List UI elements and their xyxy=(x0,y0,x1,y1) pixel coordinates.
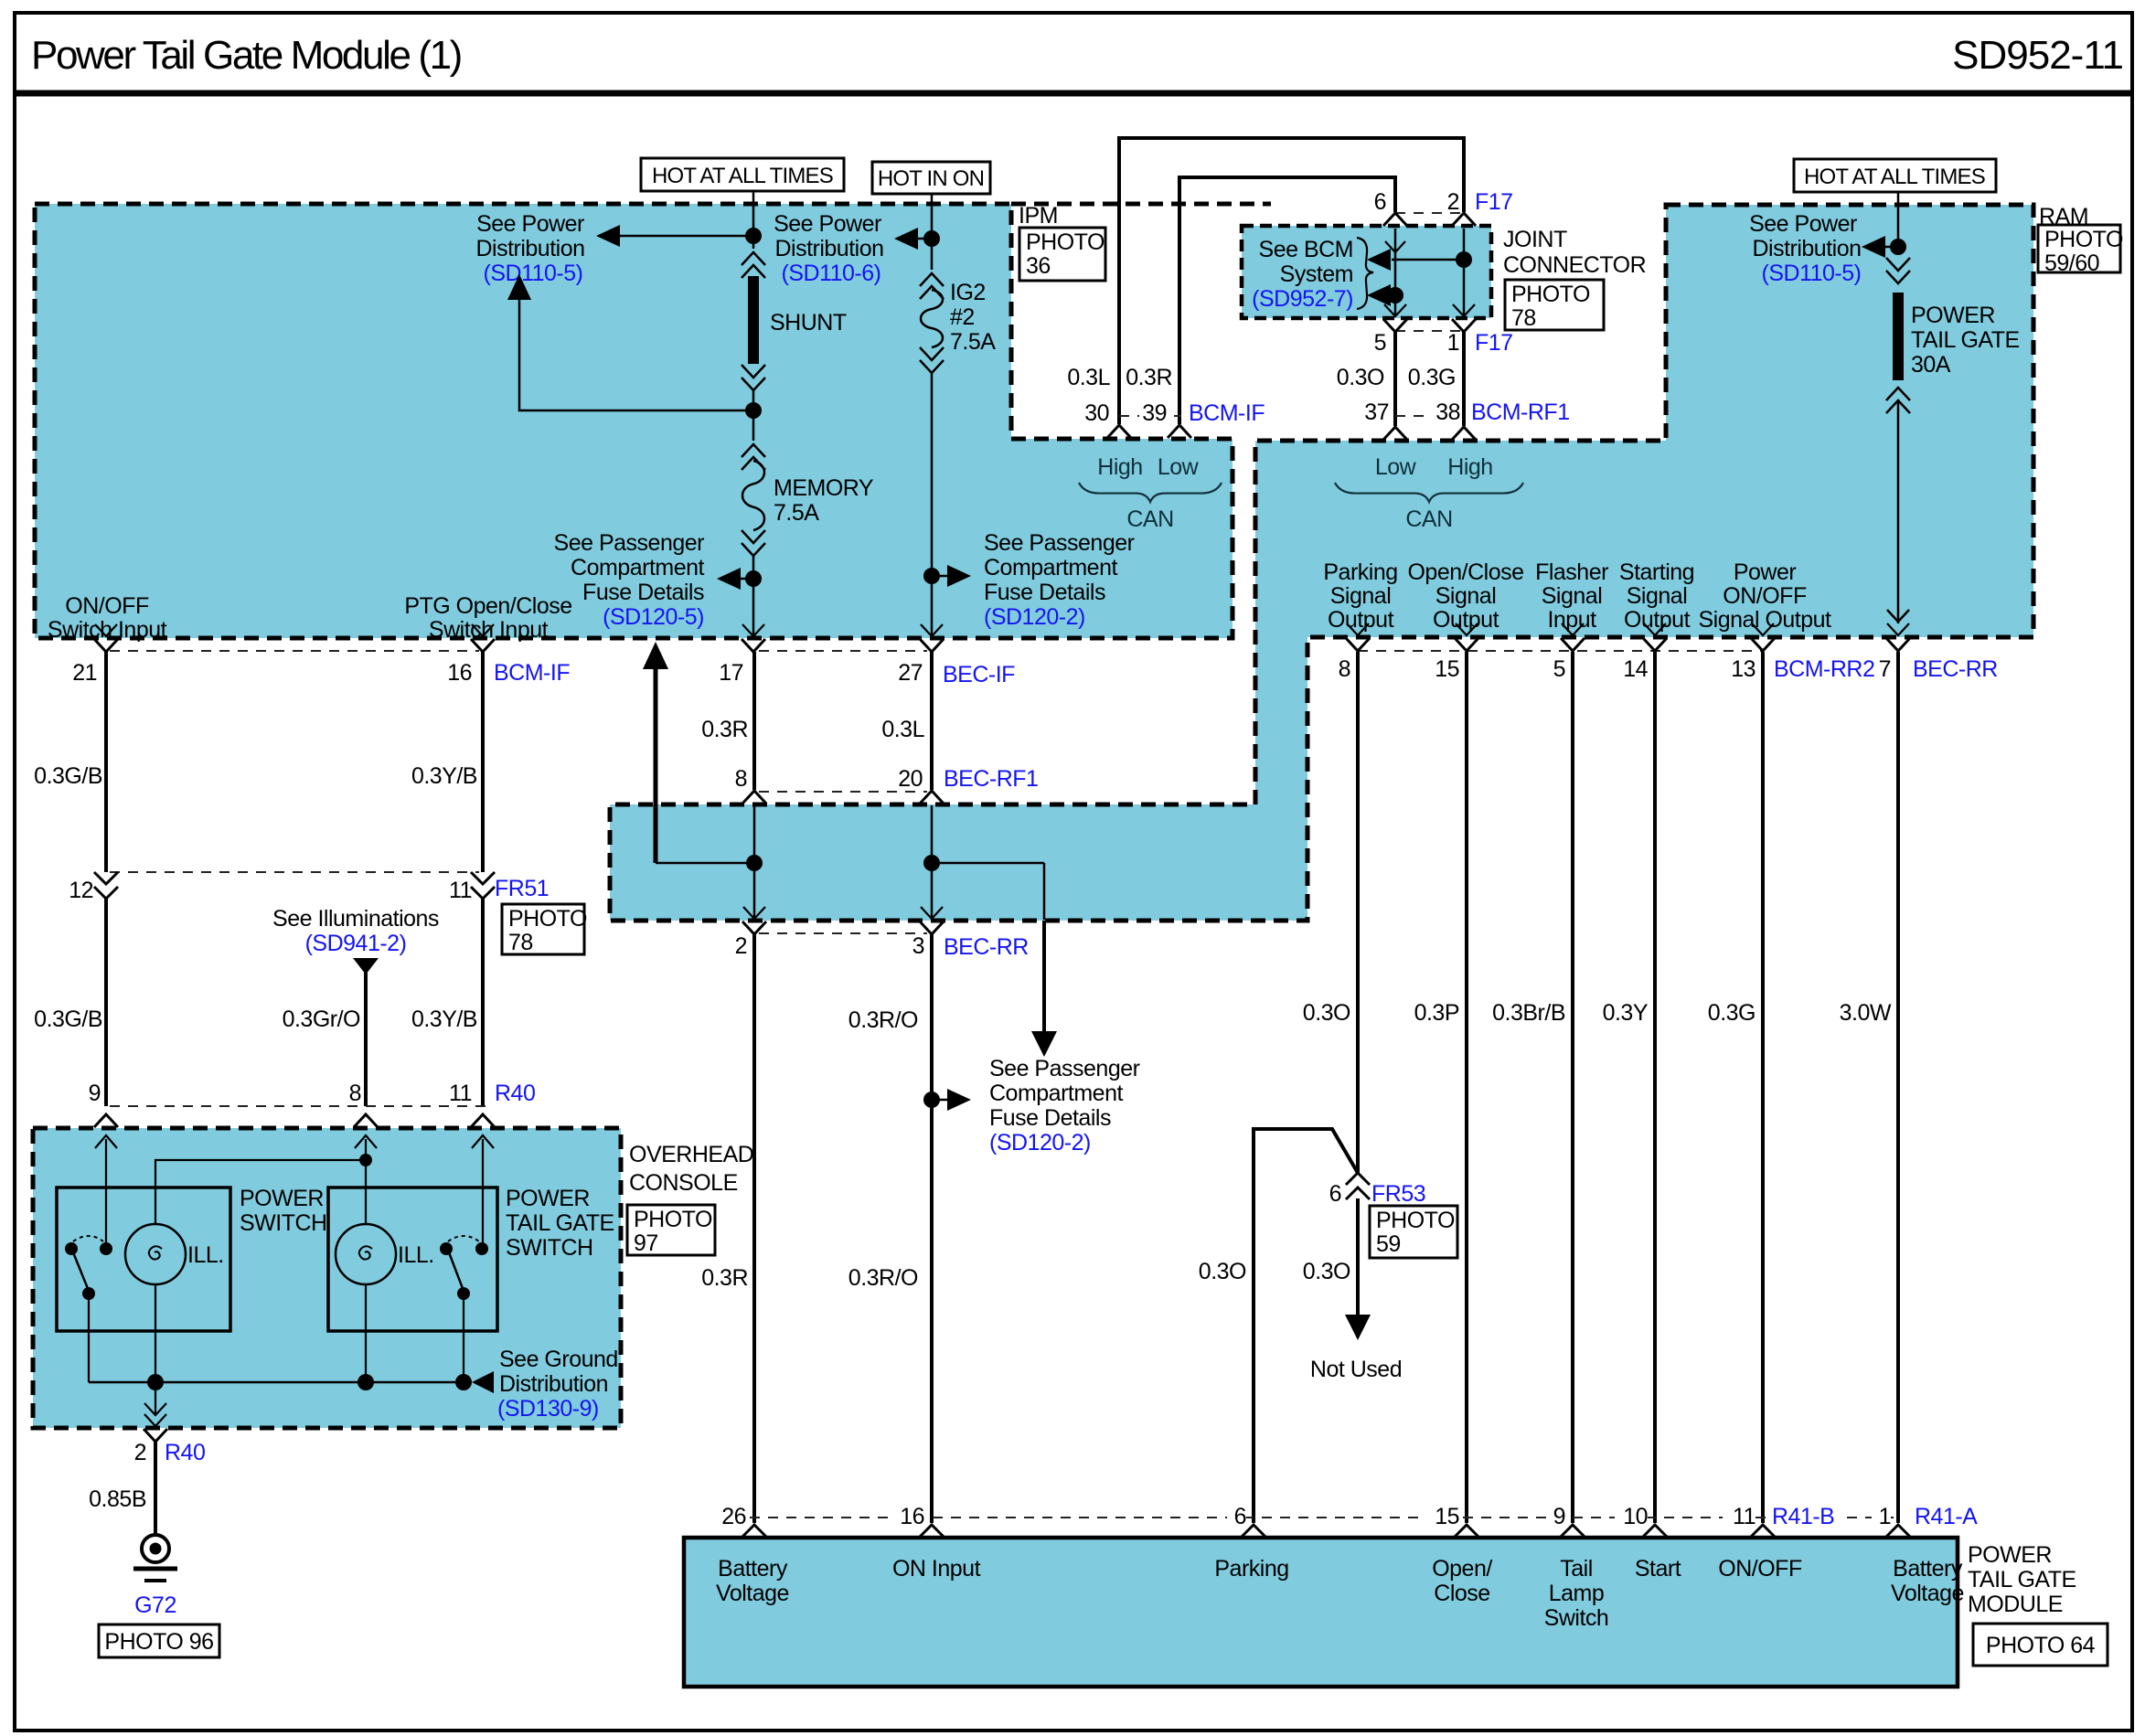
svg-text:Lamp: Lamp xyxy=(1549,1581,1605,1606)
svg-text:Signal Output: Signal Output xyxy=(1699,607,1832,633)
svg-text:Compartment: Compartment xyxy=(571,555,704,580)
svg-text:Flasher: Flasher xyxy=(1535,559,1608,585)
svg-text:CONSOLE: CONSOLE xyxy=(629,1170,738,1196)
svg-text:TAIL GATE: TAIL GATE xyxy=(506,1210,614,1236)
svg-text:PHOTO: PHOTO xyxy=(1026,229,1105,255)
svg-text:15: 15 xyxy=(1435,1504,1459,1529)
svg-text:BCM-IF: BCM-IF xyxy=(1189,400,1265,426)
svg-text:See BCM: See BCM xyxy=(1259,237,1353,262)
svg-text:Signal: Signal xyxy=(1542,583,1603,609)
svg-text:0.3G/B: 0.3G/B xyxy=(34,1006,102,1032)
svg-text:MEMORY: MEMORY xyxy=(774,475,874,501)
svg-text:0.85B: 0.85B xyxy=(89,1486,146,1512)
svg-text:High: High xyxy=(1447,454,1492,480)
svg-text:Battery: Battery xyxy=(1893,1556,1963,1582)
svg-text:POWER: POWER xyxy=(1911,303,1995,328)
svg-text:7.5A: 7.5A xyxy=(774,500,819,526)
svg-text:2: 2 xyxy=(134,1440,146,1465)
svg-text:36: 36 xyxy=(1026,253,1051,279)
svg-text:PHOTO: PHOTO xyxy=(1376,1208,1455,1233)
svg-text:Starting: Starting xyxy=(1619,559,1694,585)
svg-text:FR53: FR53 xyxy=(1371,1181,1425,1207)
svg-text:Not Used: Not Used xyxy=(1310,1357,1402,1382)
svg-text:SD952-11: SD952-11 xyxy=(1952,33,2123,78)
svg-text:3: 3 xyxy=(912,933,924,959)
svg-text:0.3Gr/O: 0.3Gr/O xyxy=(283,1006,360,1032)
svg-text:Compartment: Compartment xyxy=(989,1081,1123,1106)
svg-text:8: 8 xyxy=(349,1081,361,1106)
svg-text:Voltage: Voltage xyxy=(1891,1581,1964,1606)
svg-text:#2: #2 xyxy=(950,304,975,330)
svg-text:0.3R: 0.3R xyxy=(701,1265,748,1291)
svg-text:Distribution: Distribution xyxy=(499,1371,608,1397)
svg-text:2: 2 xyxy=(1447,189,1459,215)
svg-text:38: 38 xyxy=(1435,399,1460,425)
svg-text:R41-B: R41-B xyxy=(1772,1504,1834,1529)
svg-text:0.3O: 0.3O xyxy=(1199,1259,1246,1284)
svg-text:0.3G/B: 0.3G/B xyxy=(34,763,102,789)
svg-text:BEC-IF: BEC-IF xyxy=(943,662,1015,687)
svg-text:HOT IN ON: HOT IN ON xyxy=(878,166,984,191)
svg-text:14: 14 xyxy=(1623,656,1648,682)
svg-text:See Passenger: See Passenger xyxy=(554,530,705,556)
svg-text:21: 21 xyxy=(72,660,97,686)
svg-text:PHOTO 64: PHOTO 64 xyxy=(1986,1633,2096,1658)
svg-text:JOINT: JOINT xyxy=(1503,227,1567,252)
svg-text:0.3G: 0.3G xyxy=(1408,365,1456,390)
svg-text:Parking: Parking xyxy=(1214,1556,1288,1582)
svg-text:System: System xyxy=(1280,261,1353,287)
svg-text:Compartment: Compartment xyxy=(984,555,1117,580)
svg-text:0.3R: 0.3R xyxy=(701,717,748,742)
svg-text:9: 9 xyxy=(1553,1504,1565,1529)
svg-text:10: 10 xyxy=(1623,1504,1648,1529)
svg-text:RAM: RAM xyxy=(2039,204,2088,229)
svg-text:0.3O: 0.3O xyxy=(1337,365,1384,390)
svg-text:Distribution: Distribution xyxy=(774,236,883,261)
svg-text:R40: R40 xyxy=(165,1440,205,1465)
svg-text:2: 2 xyxy=(735,933,747,959)
svg-text:BCM-IF: BCM-IF xyxy=(494,660,570,686)
svg-text:8: 8 xyxy=(735,766,747,792)
svg-text:Output: Output xyxy=(1624,607,1691,633)
svg-text:11: 11 xyxy=(1733,1504,1755,1529)
svg-text:ON/OFF: ON/OFF xyxy=(1723,583,1807,609)
svg-text:ON Input: ON Input xyxy=(892,1556,981,1582)
svg-text:SWITCH: SWITCH xyxy=(240,1210,327,1236)
svg-text:ILL.: ILL. xyxy=(398,1242,434,1268)
svg-text:0.3Y/B: 0.3Y/B xyxy=(411,763,477,789)
svg-text:Start: Start xyxy=(1635,1556,1681,1582)
svg-text:PHOTO: PHOTO xyxy=(508,906,587,932)
svg-text:Switch Input: Switch Input xyxy=(48,617,167,643)
svg-text:PHOTO 96: PHOTO 96 xyxy=(104,1629,213,1655)
svg-text:27: 27 xyxy=(898,660,923,686)
svg-text:HOT AT ALL TIMES: HOT AT ALL TIMES xyxy=(652,164,833,188)
svg-text:0.3Y/B: 0.3Y/B xyxy=(411,1006,477,1032)
svg-text:BCM-RR2: BCM-RR2 xyxy=(1774,656,1874,682)
svg-text:SHUNT: SHUNT xyxy=(770,310,847,335)
svg-text:1: 1 xyxy=(1447,330,1459,356)
svg-text:0.3R/O: 0.3R/O xyxy=(848,1265,918,1291)
svg-text:ON/OFF: ON/OFF xyxy=(1718,1556,1802,1582)
svg-text:6: 6 xyxy=(1374,189,1386,215)
svg-text:Fuse Details: Fuse Details xyxy=(989,1105,1111,1131)
svg-text:FR51: FR51 xyxy=(495,876,549,901)
svg-text:BEC-RF1: BEC-RF1 xyxy=(944,766,1038,792)
svg-text:Voltage: Voltage xyxy=(716,1581,789,1606)
svg-text:Close: Close xyxy=(1434,1581,1489,1606)
svg-text:(SD941-2): (SD941-2) xyxy=(305,931,407,956)
svg-text:Output: Output xyxy=(1433,607,1499,633)
svg-text:Power Tail Gate Module (1): Power Tail Gate Module (1) xyxy=(31,33,461,78)
svg-text:See Power: See Power xyxy=(774,211,881,237)
svg-text:Tail: Tail xyxy=(1560,1556,1593,1582)
svg-text:IG2: IG2 xyxy=(950,280,986,305)
svg-text:Battery: Battery xyxy=(718,1556,788,1582)
svg-text:High: High xyxy=(1097,454,1142,480)
svg-text:Fuse Details: Fuse Details xyxy=(984,580,1105,605)
svg-text:Signal: Signal xyxy=(1435,583,1497,609)
svg-text:CAN: CAN xyxy=(1126,506,1173,532)
svg-text:12: 12 xyxy=(69,878,93,903)
svg-text:Fuse Details: Fuse Details xyxy=(582,580,704,605)
svg-text:30: 30 xyxy=(1084,400,1109,426)
svg-text:17: 17 xyxy=(719,660,743,686)
svg-text:G72: G72 xyxy=(134,1592,176,1618)
svg-text:BCM-RF1: BCM-RF1 xyxy=(1471,399,1570,425)
svg-text:Input: Input xyxy=(1547,607,1596,633)
svg-text:Output: Output xyxy=(1328,607,1394,633)
svg-text:0.3G: 0.3G xyxy=(1708,1000,1755,1026)
svg-text:R40: R40 xyxy=(495,1081,535,1106)
svg-text:(SD110-6): (SD110-6) xyxy=(782,261,881,286)
svg-text:9: 9 xyxy=(89,1081,101,1106)
svg-text:CAN: CAN xyxy=(1405,506,1452,532)
svg-text:0.3R: 0.3R xyxy=(1126,365,1172,390)
svg-text:Signal: Signal xyxy=(1330,583,1392,609)
svg-text:59: 59 xyxy=(1376,1231,1401,1257)
svg-text:6: 6 xyxy=(1329,1181,1341,1207)
svg-text:OVERHEAD: OVERHEAD xyxy=(629,1142,753,1167)
svg-text:5: 5 xyxy=(1553,656,1565,682)
svg-text:POWER: POWER xyxy=(1968,1542,2052,1568)
svg-text:3.0W: 3.0W xyxy=(1840,1000,1892,1026)
svg-text:(SD110-5): (SD110-5) xyxy=(1762,261,1862,286)
svg-text:See Power: See Power xyxy=(1749,211,1857,237)
svg-text:0.3O: 0.3O xyxy=(1303,1259,1350,1284)
svg-text:7: 7 xyxy=(1879,656,1891,682)
svg-text:16: 16 xyxy=(447,660,472,686)
svg-text:SWITCH: SWITCH xyxy=(506,1235,593,1261)
svg-text:(SD120-2): (SD120-2) xyxy=(989,1130,1091,1156)
svg-text:PHOTO: PHOTO xyxy=(2044,227,2123,252)
svg-text:7.5A: 7.5A xyxy=(950,329,996,355)
svg-text:See Passenger: See Passenger xyxy=(984,530,1135,556)
svg-text:Power: Power xyxy=(1734,559,1797,585)
svg-text:PHOTO: PHOTO xyxy=(634,1207,712,1232)
svg-text:See Passenger: See Passenger xyxy=(989,1056,1140,1081)
svg-text:ON/OFF: ON/OFF xyxy=(65,593,149,619)
svg-text:8: 8 xyxy=(1339,656,1350,682)
svg-text:78: 78 xyxy=(1511,305,1536,331)
svg-text:ILL.: ILL. xyxy=(187,1242,224,1268)
svg-text:TAIL GATE: TAIL GATE xyxy=(1911,327,2020,353)
svg-text:0.3Y: 0.3Y xyxy=(1603,1000,1649,1026)
svg-text:0.3L: 0.3L xyxy=(1067,365,1110,390)
svg-text:0.3L: 0.3L xyxy=(881,717,924,742)
svg-text:97: 97 xyxy=(634,1230,658,1256)
svg-text:13: 13 xyxy=(1731,656,1755,682)
svg-text:F17: F17 xyxy=(1475,330,1513,356)
svg-text:BEC-RR: BEC-RR xyxy=(944,934,1029,960)
svg-text:Low: Low xyxy=(1158,454,1200,480)
svg-text:Switch: Switch xyxy=(1544,1605,1609,1631)
svg-text:BEC-RR: BEC-RR xyxy=(1913,656,1998,682)
svg-text:37: 37 xyxy=(1364,399,1389,425)
svg-text:(SD120-5): (SD120-5) xyxy=(603,604,704,630)
svg-text:0.3P: 0.3P xyxy=(1414,1000,1459,1026)
svg-text:Open/: Open/ xyxy=(1432,1556,1492,1582)
svg-text:F17: F17 xyxy=(1475,189,1513,215)
svg-text:Distribution: Distribution xyxy=(475,236,584,261)
svg-text:6: 6 xyxy=(1234,1504,1246,1529)
svg-text:MODULE: MODULE xyxy=(1968,1592,2063,1617)
svg-text:PTG Open/Close: PTG Open/Close xyxy=(404,593,571,619)
svg-text:POWER: POWER xyxy=(240,1186,324,1211)
svg-text:(SD130-9): (SD130-9) xyxy=(497,1396,599,1422)
svg-text:Low: Low xyxy=(1375,454,1417,480)
svg-text:CONNECTOR: CONNECTOR xyxy=(1503,252,1646,278)
svg-text:IPM: IPM xyxy=(1019,203,1058,229)
svg-text:11: 11 xyxy=(449,1081,472,1106)
svg-text:39: 39 xyxy=(1142,400,1167,426)
svg-text:5: 5 xyxy=(1374,330,1386,356)
svg-text:TAIL GATE: TAIL GATE xyxy=(1968,1567,2076,1592)
svg-text:0.3O: 0.3O xyxy=(1303,1000,1350,1026)
svg-text:Distribution: Distribution xyxy=(1752,236,1861,261)
svg-text:26: 26 xyxy=(721,1504,746,1529)
svg-text:(SD120-2): (SD120-2) xyxy=(984,604,1085,630)
svg-text:(SD952-7): (SD952-7) xyxy=(1252,286,1353,312)
svg-text:PHOTO: PHOTO xyxy=(1511,282,1590,307)
svg-text:R41-A: R41-A xyxy=(1915,1504,1978,1529)
svg-text:1: 1 xyxy=(1879,1504,1891,1529)
svg-text:Signal: Signal xyxy=(1627,583,1688,609)
svg-text:See Illuminations: See Illuminations xyxy=(272,906,439,932)
svg-text:15: 15 xyxy=(1435,656,1459,682)
svg-text:78: 78 xyxy=(508,930,533,955)
svg-text:20: 20 xyxy=(898,766,923,792)
svg-text:Open/Close: Open/Close xyxy=(1407,559,1523,585)
svg-text:11: 11 xyxy=(449,878,472,903)
svg-text:30A: 30A xyxy=(1911,352,1951,378)
svg-text:16: 16 xyxy=(900,1504,924,1529)
svg-text:0.3Br/B: 0.3Br/B xyxy=(1492,1000,1565,1026)
svg-text:HOT AT ALL TIMES: HOT AT ALL TIMES xyxy=(1804,165,1985,189)
svg-text:POWER: POWER xyxy=(506,1186,590,1211)
svg-text:(SD110-5): (SD110-5) xyxy=(484,261,583,286)
svg-text:0.3R/O: 0.3R/O xyxy=(848,1007,918,1033)
svg-text:Parking: Parking xyxy=(1323,559,1397,585)
svg-text:See Ground: See Ground xyxy=(499,1347,618,1372)
svg-text:59/60: 59/60 xyxy=(2044,250,2099,276)
svg-text:See Power: See Power xyxy=(476,211,584,237)
